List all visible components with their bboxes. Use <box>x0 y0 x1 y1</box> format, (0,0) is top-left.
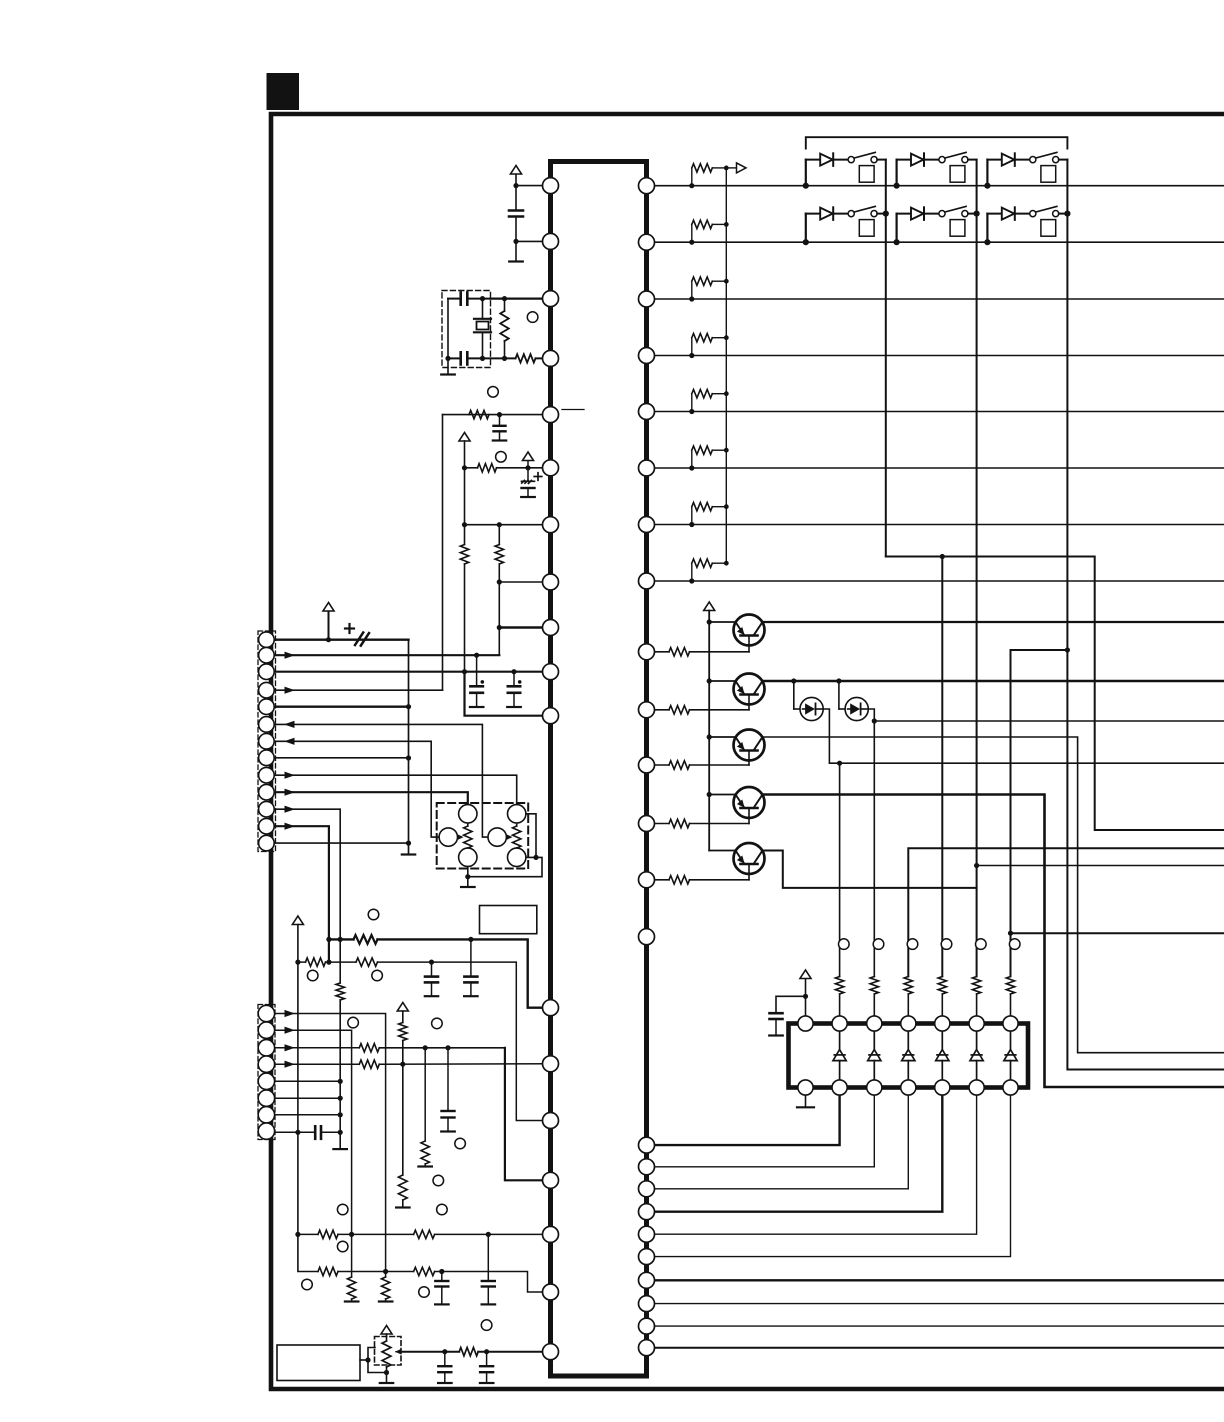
wire connector pin M <box>274 842 409 844</box>
potentiometer VR701-1 <box>467 814 469 826</box>
wire collector Q703 <box>763 737 1224 1053</box>
test points lower-left cluster <box>337 1204 348 1215</box>
wire key row 3 <box>647 298 1224 300</box>
resistor R724 <box>459 1348 478 1356</box>
wire row 1271 to pin17 <box>318 1267 338 1275</box>
power +B arrow at pin1 <box>515 174 517 186</box>
label box X702 <box>480 906 537 934</box>
switch key cell <box>1015 213 1030 215</box>
trimmer pot RT701 dashed outline <box>375 1337 402 1366</box>
wire key column 1 <box>885 160 887 557</box>
wire LED D701 cathode net <box>824 709 1224 763</box>
wire connector pin K long net <box>274 809 340 939</box>
wire pin7 row <box>465 524 551 526</box>
power +B arrow diode array pin1 <box>805 979 807 1024</box>
capacitor C716 <box>444 1352 446 1367</box>
key cap square <box>1041 166 1056 183</box>
transistor Q702 PNP <box>734 674 765 705</box>
LED D701 <box>791 678 796 683</box>
capacitor C720 array supply <box>776 996 806 1013</box>
resistor base Q705 <box>647 879 670 881</box>
wire diode array col4 to IC pin <box>647 1088 943 1212</box>
pot2 terminal circles <box>508 805 526 823</box>
wire connector pin A +B supply <box>274 639 409 641</box>
wire connector pin J to pot1 top <box>274 792 468 804</box>
wire IC bottom output 9 <box>647 1325 1224 1327</box>
resistor R702 parallel crystal <box>504 299 506 311</box>
resistor R719 <box>424 1048 426 1141</box>
wire row B to pin14 <box>298 961 306 963</box>
test point column 6 <box>1009 939 1020 950</box>
switch key cell <box>1015 159 1030 161</box>
test point column 1 <box>839 939 850 950</box>
connector CN702 dashed box <box>258 1005 275 1140</box>
wire key row 1 <box>647 185 1224 187</box>
resistor row 5 pull-up <box>689 409 694 414</box>
trimmer resistive element <box>382 1341 391 1367</box>
board outline border <box>271 114 1224 1389</box>
wire diode array col3 to IC pin <box>647 1088 909 1189</box>
capacitor C712 <box>447 1048 449 1111</box>
wire collector Q704 <box>763 795 1224 1088</box>
wire LED D702 cathode net <box>869 709 1224 721</box>
wire pin9 <box>499 626 550 628</box>
wire column to diode array 6 <box>1010 650 1012 976</box>
diode array pins top/bottom <box>798 1016 813 1031</box>
diode array element 5 <box>976 1024 978 1051</box>
pot2 wiper arrow <box>497 836 510 838</box>
wire connector pin I to pot2 top <box>274 775 517 804</box>
switch key cell <box>833 159 848 161</box>
wire pin5 long vertical to connector D <box>442 415 444 691</box>
diode array IC702 body <box>789 1024 1029 1088</box>
transistor Q705 PNP <box>734 843 765 874</box>
resistor R705 +B rail chain <box>460 545 468 564</box>
resistor array column 4 <box>941 975 943 977</box>
wire cell left leg <box>895 160 897 186</box>
key cap square <box>950 166 965 183</box>
test point column 4 <box>941 939 952 950</box>
resistor R722 <box>414 1230 435 1238</box>
capacitor C701 pin1-pin2 <box>515 186 517 211</box>
test point <box>372 970 383 981</box>
wire collector Q705 <box>763 851 977 888</box>
page corner marker square <box>267 73 300 110</box>
wire pin6 row <box>465 467 478 469</box>
diode key cell <box>806 159 820 161</box>
wire key row 8 <box>647 580 1224 582</box>
key switch group bracket <box>806 137 1068 148</box>
wire connector2 pin D2 to pin13 <box>274 1063 359 1065</box>
capacitor C703 (series, bottom) <box>459 352 462 364</box>
transistor Q701 PNP <box>734 615 765 646</box>
resistor R720 <box>359 1060 379 1068</box>
diode array element 2 <box>873 1024 875 1051</box>
wire key row 4 <box>647 355 1224 357</box>
wire crystal left leg <box>447 299 449 359</box>
diode key cell <box>806 213 820 215</box>
wire key column 3 <box>1067 160 1224 1070</box>
wire connector pin C / pin10 row <box>274 671 551 673</box>
diode key cell <box>987 159 1001 161</box>
pot1 terminal circles <box>459 805 477 823</box>
transistor Q704 PNP <box>734 787 765 818</box>
wire branch to edge 933 <box>1011 932 1224 934</box>
test point <box>496 452 507 463</box>
wire pin5 row <box>443 414 551 416</box>
connector CN701 pins <box>259 632 275 648</box>
wire LED nets to diode array 1,2 <box>839 763 841 976</box>
wire connector2 pin H2 + series cap C713 <box>274 1131 315 1133</box>
key cap square <box>859 166 874 183</box>
capacitor C704 pin5 to gnd <box>499 415 501 426</box>
wire connector pin B <box>274 654 499 656</box>
resistor array column 3 <box>907 975 909 977</box>
key cap square <box>859 220 874 237</box>
resistor R701 pin4 series <box>516 354 536 362</box>
resistor R718 <box>359 1044 379 1052</box>
key cap square <box>1041 220 1056 237</box>
resistor R716 A2 termination <box>381 1277 389 1299</box>
wire emitter Q702 <box>709 680 735 682</box>
wire corner feed diode array 3 <box>908 848 1224 976</box>
power +B arrow left of pin6 <box>459 433 470 442</box>
connector CN702 pins <box>258 1005 274 1021</box>
resistor base Q701 <box>647 651 670 653</box>
wire connector pin E <box>274 706 409 708</box>
wire connector pin G to volume pot 1 wiper <box>274 741 448 837</box>
capacitor C717 <box>486 1352 488 1367</box>
wire diode array col5 to IC pin <box>647 1088 977 1235</box>
trimmer wiper arrow <box>396 1351 400 1353</box>
wire cell left leg <box>986 160 988 186</box>
transistor Q703 PNP <box>734 730 765 761</box>
wire pin1 <box>516 185 551 187</box>
resistor R704 pin6 <box>478 464 497 472</box>
wire cell left leg <box>805 214 807 243</box>
capacitor C710 <box>470 939 472 976</box>
ground rail from pin A down <box>408 640 410 854</box>
resistor base Q702 <box>647 709 670 711</box>
diode array element 6 <box>1010 1024 1012 1051</box>
wire box to trimmer bracket <box>360 1359 368 1361</box>
wire emitter Q703 <box>709 736 735 738</box>
test point column 2 <box>873 939 884 950</box>
diode key cell <box>987 213 1001 215</box>
wire resistor common vertical <box>725 168 727 563</box>
ground pin2 net <box>515 241 517 261</box>
IC U701 microcontroller body <box>551 162 647 1377</box>
resistor R721 <box>318 1230 338 1238</box>
wire cell left leg <box>986 214 988 243</box>
diode key cell <box>897 213 911 215</box>
diode key cell <box>897 159 911 161</box>
switch key cell <box>924 213 939 215</box>
wire emitter Q705 <box>709 850 735 852</box>
wire connector pin F to volume pot 2 wiper <box>274 724 497 837</box>
test point <box>307 970 318 981</box>
resistor row 6 pull-up <box>689 465 694 470</box>
resistor array column 2 <box>873 975 875 977</box>
test point <box>348 1017 359 1028</box>
wire connector pin D to pin5 net <box>274 689 443 691</box>
wire emitter Q704 <box>709 794 735 796</box>
wire jog-556 to diode array 4 <box>941 557 943 977</box>
test point <box>368 909 379 920</box>
volume control VR701 dashed box <box>437 803 529 869</box>
oscillator module box <box>277 1345 360 1381</box>
power +B arrow trimmer <box>381 1326 392 1335</box>
ground diode array pin1 bottom <box>805 1088 807 1107</box>
test point <box>488 387 499 398</box>
resistor R703 pin5 <box>469 410 489 418</box>
electrolytic capacitor C705 pin6 <box>527 468 529 481</box>
wire connector2 pin A2 <box>274 1014 386 1278</box>
resistor base Q704 <box>647 823 670 825</box>
wire trimmer to pin18 <box>400 1351 459 1353</box>
key cap square <box>950 220 965 237</box>
capacitor C715 <box>441 1272 443 1282</box>
test point column 5 <box>976 939 987 950</box>
wire branch to edge 865 <box>977 865 1224 867</box>
resistor R723 <box>414 1267 435 1275</box>
test point <box>432 1018 443 1029</box>
wire key row 7 <box>647 524 1224 526</box>
resistor row 7 pull-up <box>689 522 694 527</box>
wire link down to pin11 <box>465 672 551 716</box>
wire pin2 <box>516 240 551 242</box>
resistor R712 <box>356 958 377 966</box>
switch key cell <box>924 159 939 161</box>
test point <box>527 312 538 323</box>
fuse/link symbol on +B wire <box>345 627 354 629</box>
wire diode array col1 to IC pin <box>647 1088 840 1146</box>
resistor row 4 pull-up <box>689 353 694 358</box>
wire key col1 jog <box>886 557 1224 831</box>
test point column 3 <box>907 939 918 950</box>
capacitor C714 <box>487 1234 489 1281</box>
resistor R715 <box>398 1175 407 1200</box>
resistor array column 5 <box>976 975 978 977</box>
wire pin3 <box>491 298 551 300</box>
wire IC bottom output 8 <box>647 1303 1224 1305</box>
LED D702 <box>836 678 841 683</box>
capacitor C711 <box>431 962 433 977</box>
ground crystal <box>447 358 449 374</box>
power +B arrow at pin6 <box>527 461 529 468</box>
crystal oscillator block X701 dashed box <box>442 291 491 368</box>
wire cell left leg <box>895 214 897 243</box>
resistor base Q703 <box>647 764 670 766</box>
IC U701 right pins <box>639 178 655 194</box>
pot1 ground stem <box>467 867 469 887</box>
wire IC bottom output 10 <box>647 1347 1224 1349</box>
wire pin4 <box>448 357 461 359</box>
electrolytic capacitor C707 <box>513 672 515 687</box>
resistor R714 <box>399 1023 407 1041</box>
wire key col3 branch jog <box>1011 649 1068 651</box>
resistor row 3 pull-up <box>689 296 694 301</box>
connector CN701 dashed box <box>258 631 276 852</box>
wire row 1234 to pin16 <box>298 1233 318 1235</box>
IC U701 left pins <box>543 178 559 194</box>
wire pin8 <box>499 581 550 583</box>
crystal element <box>482 299 484 319</box>
power +B arrow mid rail <box>397 1003 408 1012</box>
switch key cell <box>833 213 848 215</box>
resistor R713 on K net <box>339 939 341 983</box>
wire row A (thick) to pin12 <box>329 938 354 940</box>
electrolytic capacitor C706 <box>476 655 478 686</box>
wire key row 5 <box>647 411 1224 413</box>
resistor array column 6 <box>1010 975 1012 977</box>
diode array element 4 <box>941 1024 943 1051</box>
wire emitter Q701 <box>709 621 735 623</box>
potentiometer VR701-2 <box>516 814 518 826</box>
NC dash at pin 5 <box>562 409 584 411</box>
diode array element 1 <box>839 1024 841 1051</box>
capacitor C702 (series, top) <box>459 293 462 305</box>
diode array element 3 <box>907 1024 909 1051</box>
wire IC bottom output 7 <box>647 1279 1224 1281</box>
wire connector2 pin E2 <box>274 1080 340 1082</box>
wire diode array col6 to IC pin <box>647 1088 1011 1257</box>
wire key row 2 <box>647 241 1224 243</box>
pot1 wiper arrow <box>448 836 461 838</box>
resistor array column 1 <box>839 975 841 977</box>
wire connector pin H <box>274 757 409 759</box>
net arrow KEY common <box>726 167 736 169</box>
wire connector2 pin F2 <box>274 1097 340 1099</box>
wire key column 2 <box>976 160 978 977</box>
wire connector pin L <box>274 826 329 962</box>
resistor R711 <box>306 958 326 966</box>
resistor row 1 pull-up <box>689 183 694 188</box>
wire key row 6 <box>647 467 1224 469</box>
wire diode array col2 to IC pin <box>647 1088 875 1167</box>
resistor R710 <box>354 935 378 944</box>
wire connector2 pin B2 <box>274 1030 352 1277</box>
power +B arrow connector A <box>328 613 330 640</box>
wire collector Q701 <box>763 621 1224 623</box>
wire collector Q702 <box>763 680 1224 683</box>
pot2 top-to-bottom strap <box>526 814 536 858</box>
resistor row 8 pull-up <box>689 578 694 583</box>
power +B arrow transistor rail <box>704 602 715 611</box>
wire cell left leg <box>805 160 807 186</box>
resistor R706 pin7 chain down <box>498 525 500 545</box>
wire connector2 pin C2 to pin15 <box>274 1047 359 1049</box>
resistor row 2 pull-up <box>689 240 694 245</box>
resistor R717 B2 termination <box>347 1277 355 1299</box>
power +B rail lower-left <box>292 916 303 925</box>
wire connector2 pin G2 <box>274 1114 340 1116</box>
